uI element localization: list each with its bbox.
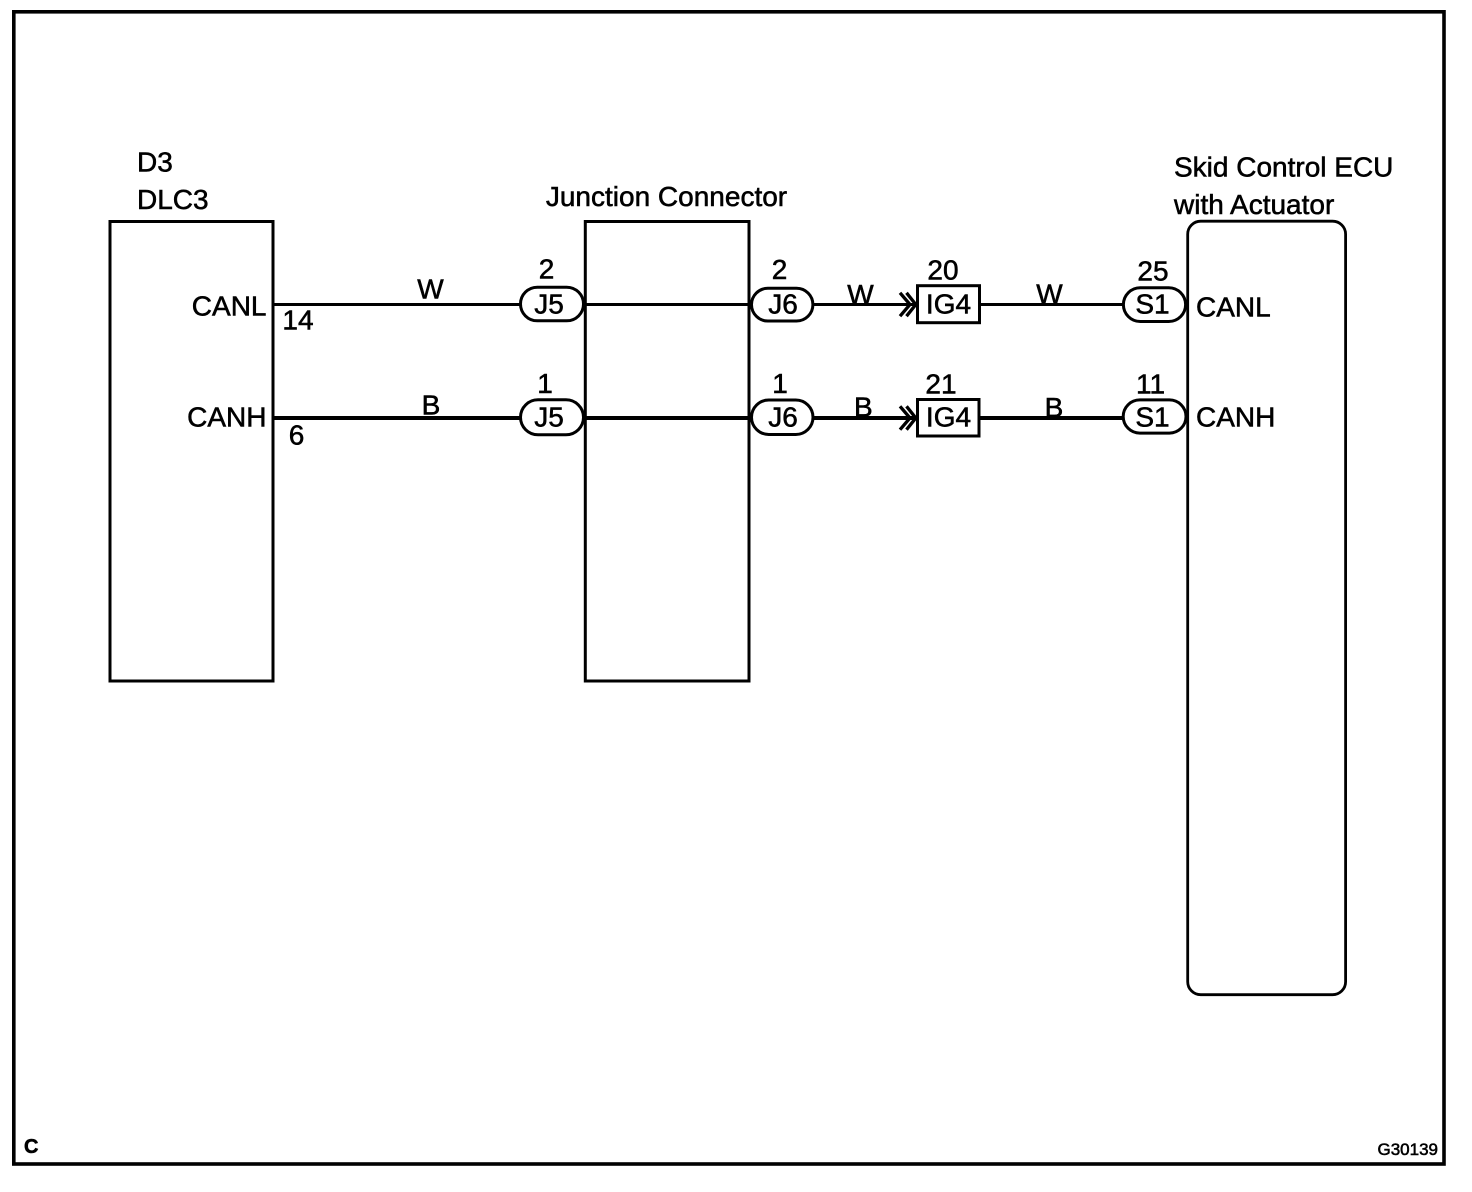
svg-text:DLC3: DLC3: [137, 184, 209, 215]
svg-text:B: B: [1045, 392, 1064, 423]
svg-text:W: W: [1036, 279, 1063, 310]
svg-text:W: W: [417, 274, 444, 305]
svg-text:J6: J6: [768, 402, 798, 433]
svg-text:1: 1: [772, 368, 788, 399]
svg-text:B: B: [854, 392, 873, 423]
svg-text:IG4: IG4: [926, 289, 971, 320]
svg-text:G30139: G30139: [1378, 1140, 1439, 1159]
svg-text:CANH: CANH: [187, 402, 266, 433]
svg-text:S1: S1: [1135, 402, 1169, 433]
svg-text:with Actuator: with Actuator: [1173, 189, 1334, 220]
svg-text:14: 14: [282, 305, 313, 336]
svg-text:Skid Control ECU: Skid Control ECU: [1174, 152, 1393, 183]
svg-text:11: 11: [1136, 369, 1165, 400]
svg-text:1: 1: [537, 368, 553, 399]
svg-text:21: 21: [925, 369, 956, 400]
svg-text:2: 2: [539, 254, 555, 285]
svg-text:S1: S1: [1135, 289, 1169, 320]
svg-text:W: W: [847, 279, 874, 310]
svg-text:Junction Connector: Junction Connector: [546, 181, 787, 212]
svg-text:6: 6: [289, 420, 305, 451]
svg-text:CANH: CANH: [1196, 402, 1275, 433]
svg-text:2: 2: [772, 254, 788, 285]
svg-text:J6: J6: [768, 289, 798, 320]
svg-text:CANL: CANL: [192, 291, 267, 322]
svg-text:B: B: [422, 390, 441, 421]
svg-text:J5: J5: [534, 289, 564, 320]
svg-text:J5: J5: [534, 402, 564, 433]
svg-text:20: 20: [927, 255, 958, 286]
svg-text:C: C: [24, 1136, 38, 1158]
svg-text:IG4: IG4: [926, 402, 971, 433]
svg-text:25: 25: [1137, 256, 1168, 287]
svg-text:CANL: CANL: [1196, 292, 1271, 323]
svg-text:D3: D3: [137, 147, 173, 178]
